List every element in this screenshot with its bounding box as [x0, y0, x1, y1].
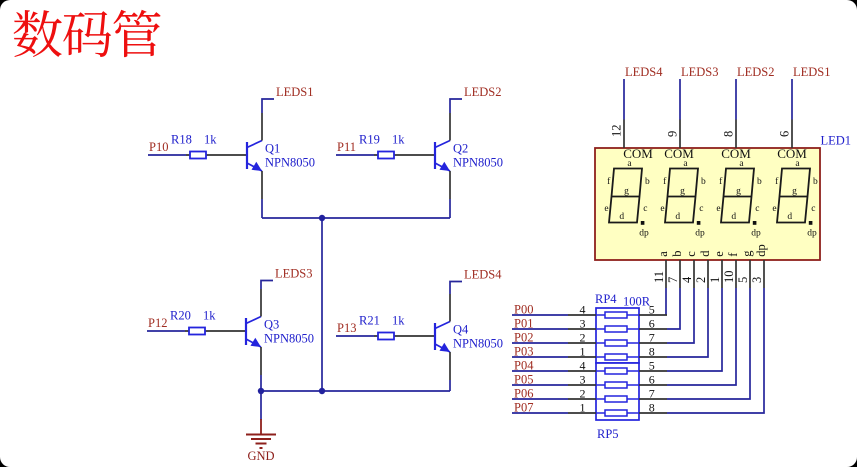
svg-text:LEDS3: LEDS3	[275, 266, 313, 280]
pin 6 right	[639, 328, 667, 330]
wire emitter down	[260, 375, 262, 391]
pin 7 b of LED1	[679, 260, 681, 288]
svg-text:dp: dp	[807, 229, 817, 239]
pin 9 COM	[679, 120, 681, 149]
pin 5 right	[639, 314, 667, 316]
svg-text:10: 10	[722, 271, 736, 284]
svg-text:e: e	[712, 251, 726, 257]
7-segment digit 1	[609, 169, 642, 223]
resistor R18 1k	[190, 152, 206, 159]
svg-text:LEDS1: LEDS1	[793, 65, 831, 79]
svg-text:3: 3	[580, 317, 586, 331]
pin 4 left	[568, 314, 596, 316]
wire collector to LEDS2	[450, 99, 462, 113]
wire R21 to Q4 base	[374, 335, 435, 337]
svg-text:1: 1	[708, 277, 722, 283]
wire LEDS2 to COM pin	[735, 79, 737, 120]
svg-text:100R: 100R	[623, 295, 651, 309]
svg-text:3: 3	[580, 373, 586, 387]
wire segment f	[667, 288, 736, 385]
svg-text:d: d	[731, 212, 736, 222]
svg-text:6: 6	[778, 131, 792, 137]
svg-text:e: e	[660, 204, 664, 214]
svg-text:6: 6	[649, 317, 655, 331]
wire emitter down	[449, 380, 451, 391]
svg-text:8: 8	[649, 345, 655, 359]
pin 1 left	[568, 412, 596, 414]
svg-text:R20: R20	[170, 309, 191, 323]
svg-text:c: c	[755, 204, 759, 214]
svg-text:d: d	[619, 212, 624, 222]
svg-text:R19: R19	[359, 133, 380, 147]
resistor element 6	[596, 384, 639, 386]
svg-text:dp: dp	[751, 229, 761, 239]
7-segment digit 2	[665, 169, 698, 223]
wire P05	[512, 384, 568, 386]
svg-text:LEDS1: LEDS1	[276, 85, 314, 99]
wire to ground	[260, 391, 262, 420]
svg-text:b: b	[757, 177, 762, 187]
transistor Q3 NPN8050	[246, 317, 261, 348]
wire LEDS1 to COM pin	[791, 79, 793, 120]
resistor element 4	[596, 356, 639, 358]
transistor Q1 NPN8050	[247, 141, 262, 172]
junction node upper	[319, 215, 325, 221]
resistor element 7	[596, 398, 639, 400]
svg-text:6: 6	[649, 373, 655, 387]
pin 3 left	[568, 328, 596, 330]
junction node lower mid	[319, 388, 325, 394]
svg-text:11: 11	[652, 271, 666, 283]
wire LEDS4 to COM pin	[623, 79, 625, 120]
resistor pack RP5 body	[596, 363, 639, 420]
svg-text:LED1: LED1	[821, 134, 852, 148]
wire P04	[512, 370, 568, 372]
svg-text:7: 7	[666, 277, 680, 283]
wire collector to LEDS4	[450, 282, 462, 295]
pin 4 left	[568, 370, 596, 372]
pin 5 g of LED1	[749, 260, 751, 288]
pin 7 right	[639, 342, 667, 344]
pin 8 right	[639, 412, 667, 414]
svg-text:Q1: Q1	[265, 142, 280, 156]
svg-text:g: g	[740, 250, 754, 257]
resistor element 2	[596, 328, 639, 330]
wire P11 to R19	[336, 154, 374, 156]
svg-text:d: d	[698, 250, 712, 257]
wire P02	[512, 342, 568, 344]
Q4 collector pin	[449, 294, 451, 322]
svg-text:1: 1	[580, 401, 586, 415]
Q4 emitter pin	[449, 352, 451, 380]
svg-text:a: a	[656, 251, 670, 257]
wire segment dp	[667, 288, 764, 413]
svg-text:g: g	[624, 187, 629, 197]
resistor R19 1k	[378, 152, 394, 159]
wire P01	[512, 328, 568, 330]
wire segment d	[667, 288, 708, 357]
svg-text:d: d	[675, 212, 680, 222]
title char 管	[113, 10, 160, 57]
svg-text:4: 4	[580, 303, 586, 317]
svg-text:LEDS2: LEDS2	[737, 65, 775, 79]
svg-text:P10: P10	[149, 140, 168, 154]
svg-text:COM: COM	[777, 146, 807, 161]
pin 10 f of LED1	[735, 260, 737, 288]
resistor R20 1k	[189, 328, 205, 335]
pin 12 COM	[623, 120, 625, 149]
svg-text:NPN8050: NPN8050	[265, 156, 315, 170]
svg-text:LEDS2: LEDS2	[464, 85, 502, 99]
svg-text:4: 4	[580, 359, 586, 373]
svg-text:g: g	[792, 187, 797, 197]
svg-text:5: 5	[649, 303, 655, 317]
title char 数	[14, 10, 62, 57]
svg-text:RP4: RP4	[595, 292, 617, 306]
svg-text:1k: 1k	[204, 133, 217, 147]
pin 11 a of LED1	[665, 260, 667, 288]
pin 2 d of LED1	[707, 260, 709, 288]
svg-text:b: b	[645, 177, 650, 187]
svg-text:Q4: Q4	[453, 323, 469, 337]
junction node lower left	[258, 388, 264, 394]
svg-text:e: e	[716, 204, 720, 214]
Q2 collector pin	[449, 113, 451, 141]
wire P06	[512, 398, 568, 400]
svg-text:c: c	[811, 204, 815, 214]
wire vertical middle	[321, 218, 323, 391]
pin 2 left	[568, 398, 596, 400]
Q2 emitter pin	[449, 171, 451, 199]
pin 1 left	[568, 356, 596, 358]
svg-text:3: 3	[750, 277, 764, 283]
wire P12 to R20	[147, 330, 185, 332]
wire segment b	[667, 288, 680, 329]
svg-text:LEDS4: LEDS4	[625, 65, 663, 79]
pin 6 COM	[791, 120, 793, 149]
svg-text:8: 8	[722, 131, 736, 137]
svg-text:e: e	[604, 204, 608, 214]
Q1 collector pin	[261, 113, 263, 141]
svg-text:Q2: Q2	[453, 142, 468, 156]
svg-text:COM: COM	[664, 146, 694, 161]
svg-text:5: 5	[736, 277, 750, 283]
svg-text:b: b	[670, 251, 684, 257]
svg-text:c: c	[643, 204, 647, 214]
svg-text:NPN8050: NPN8050	[453, 156, 503, 170]
wire R18 to Q1 base	[186, 154, 247, 156]
svg-text:9: 9	[666, 131, 680, 137]
svg-text:2: 2	[580, 331, 586, 345]
svg-text:Q3: Q3	[264, 318, 279, 332]
svg-text:c: c	[684, 251, 698, 257]
svg-text:R18: R18	[171, 133, 192, 147]
svg-text:P11: P11	[337, 140, 356, 154]
svg-text:8: 8	[649, 401, 655, 415]
pin 6 right	[639, 384, 667, 386]
svg-text:P13: P13	[337, 321, 356, 335]
svg-text:dp: dp	[695, 229, 705, 239]
svg-text:LEDS4: LEDS4	[464, 267, 502, 281]
svg-text:e: e	[772, 204, 776, 214]
pin 1 e of LED1	[721, 260, 723, 288]
wire emitters Q1-Q2	[262, 217, 450, 219]
pin 8 right	[639, 356, 667, 358]
svg-text:7: 7	[649, 387, 655, 401]
pin 3 left	[568, 384, 596, 386]
wire emitters Q3-Q4	[261, 390, 450, 392]
svg-text:LEDS3: LEDS3	[681, 65, 719, 79]
wire collector to LEDS3	[261, 281, 273, 290]
wire LEDS3 to COM pin	[679, 79, 681, 120]
svg-text:NPN8050: NPN8050	[264, 332, 314, 346]
pin 8 COM	[735, 120, 737, 149]
svg-text:dp: dp	[754, 244, 768, 257]
svg-text:NPN8050: NPN8050	[453, 337, 503, 351]
svg-text:dp: dp	[639, 229, 649, 239]
svg-text:d: d	[787, 212, 792, 222]
transistor Q2 NPN8050	[435, 141, 450, 172]
wire segment c	[667, 288, 694, 343]
4-digit display LED1 body	[595, 148, 820, 260]
pin 3 dp of LED1	[763, 260, 765, 288]
svg-text:GND: GND	[247, 449, 274, 463]
resistor element 1	[596, 314, 639, 316]
svg-text:b: b	[813, 177, 818, 187]
resistor element 5	[596, 370, 639, 372]
svg-text:2: 2	[580, 387, 586, 401]
resistor element 3	[596, 342, 639, 344]
wire R20 to Q3 base	[185, 330, 246, 332]
Q1 emitter pin	[261, 171, 263, 199]
wire P10 to R18	[148, 154, 186, 156]
svg-text:2: 2	[694, 277, 708, 283]
7-segment digit 4	[777, 169, 810, 223]
svg-text:4: 4	[680, 276, 694, 283]
wire segment e	[667, 288, 722, 371]
svg-text:g: g	[736, 187, 741, 197]
Q3 collector pin	[260, 289, 262, 317]
transistor Q4 NPN8050	[435, 322, 450, 353]
svg-text:COM: COM	[721, 146, 751, 161]
7-segment digit 3	[721, 169, 754, 223]
svg-text:c: c	[699, 204, 703, 214]
wire P03	[512, 356, 568, 358]
svg-text:1k: 1k	[203, 309, 216, 323]
svg-text:5: 5	[649, 359, 655, 373]
wire emitter down	[449, 199, 451, 218]
svg-text:7: 7	[649, 331, 655, 345]
wire segment g	[667, 288, 750, 399]
pin 2 left	[568, 342, 596, 344]
wire segment a	[665, 288, 667, 315]
svg-text:1k: 1k	[392, 314, 405, 328]
svg-text:RP5: RP5	[597, 427, 619, 441]
ground GND	[246, 419, 276, 448]
pin 7 right	[639, 398, 667, 400]
wire P07	[512, 412, 568, 414]
wire P00	[512, 314, 568, 316]
pin 5 right	[639, 370, 667, 372]
wire collector to LEDS1	[262, 99, 274, 113]
svg-text:1: 1	[580, 345, 586, 359]
wire P13 to R21	[336, 335, 374, 337]
svg-text:P12: P12	[148, 316, 167, 330]
svg-text:1k: 1k	[392, 133, 405, 147]
svg-text:b: b	[701, 177, 706, 187]
Q3 emitter pin	[260, 347, 262, 375]
svg-text:g: g	[680, 187, 685, 197]
pin 4 c of LED1	[693, 260, 695, 288]
resistor element 8	[596, 412, 639, 414]
svg-text:R21: R21	[359, 314, 380, 328]
resistor pack RP4 body	[596, 308, 639, 363]
wire R19 to Q2 base	[374, 154, 435, 156]
resistor R21 1k	[378, 333, 394, 340]
title char 码	[63, 11, 111, 57]
wire emitter down	[261, 199, 263, 218]
svg-text:12: 12	[610, 125, 624, 138]
